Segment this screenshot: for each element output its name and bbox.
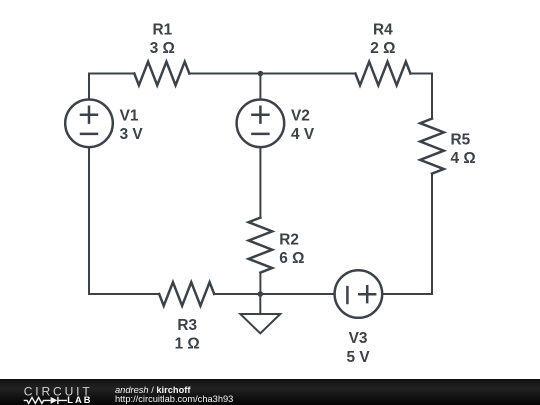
svg-text:V3: V3 [349,330,368,347]
svg-text:1 Ω: 1 Ω [175,336,200,353]
node junction dot bottom [258,291,264,297]
wire R1 to top junction [189,73,260,75]
wire bottom junction to R3 [214,293,260,295]
svg-text:R3: R3 [177,317,197,334]
wire R5 down to bottom-right corner to V3 [383,174,432,294]
footer black bar [0,379,540,405]
wire V3 to bottom junction [260,293,333,295]
svg-text:V1: V1 [120,108,139,125]
resistor R3 [159,282,214,306]
svg-text:5 V: 5 V [347,349,371,366]
resistor R4 [355,62,410,86]
voltage source V3 [335,270,383,318]
svg-text:4 V: 4 V [291,126,315,143]
CircuitLab logo wire with resistor zigzag [24,397,51,403]
wire V2 bottom to R2 [259,148,261,218]
V3 minus bar [346,287,349,303]
svg-text:3 V: 3 V [120,126,144,143]
wire top-left: V1 top up and right to R1 [89,74,134,100]
wire R4 to top-right corner down to R5 [410,74,432,119]
svg-text:LAB: LAB [67,395,92,405]
svg-text:R2: R2 [279,231,299,248]
V1 minus bar [81,133,97,136]
svg-text:4 Ω: 4 Ω [451,150,476,167]
voltage source V2 [237,100,285,148]
svg-text:R1: R1 [152,22,172,39]
resistor R5 [420,119,444,174]
node junction dot top [258,71,264,77]
svg-text:R5: R5 [451,132,471,149]
ground triangle symbol [240,314,280,333]
svg-text:V2: V2 [291,108,310,125]
resistor R2 [249,218,273,273]
V1 plus sign [81,107,97,123]
resistor R1 [134,62,189,86]
wire R3 to bottom-left corner up to V1 bottom [89,148,159,294]
V2 plus sign [252,107,268,123]
wire top junction down to V2 [259,74,261,100]
ground stub wire [259,294,261,314]
svg-text:3 Ω: 3 Ω [150,40,175,57]
CircuitLab logo diode cathode bar and wire [58,397,67,404]
V3 plus sign [359,286,375,302]
svg-text:6 Ω: 6 Ω [279,250,304,267]
wire top junction to R4 [260,73,355,75]
svg-text:http://circuitlab.com/cha3h93: http://circuitlab.com/cha3h93 [115,394,233,404]
svg-text:2 Ω: 2 Ω [370,40,395,57]
svg-text:R4: R4 [373,22,393,39]
V2 minus bar [252,133,268,136]
CircuitLab logo diode symbol [51,397,58,404]
wire R2 to bottom junction [259,273,261,294]
voltage source V1 [65,100,113,148]
